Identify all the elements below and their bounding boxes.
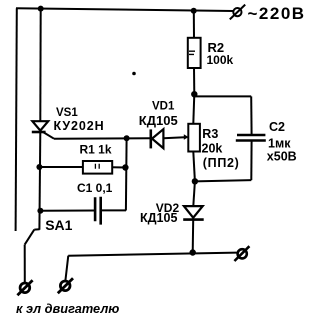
wire C2 bottom horizontal [195,180,251,181]
wire C2 lower vertical [250,140,252,180]
junction top-left [38,6,44,12]
thyristor VS1 triangle [32,121,48,130]
capacitor C2 plates [236,135,266,141]
wire SA1 blade [25,230,35,245]
resistor R3 (potentiometer) [188,124,200,152]
wire bottom rail [68,253,236,256]
terminal right output [234,246,249,261]
svg-text:х50В: х50В [267,150,297,164]
resistor R2 [188,38,201,68]
wire R1C1 right vertical [125,138,128,210]
wire R3 top lead [193,94,194,124]
svg-text:R3: R3 [202,127,218,141]
wire VS1 cathode drop [38,133,41,230]
R3 wiper arrowhead [184,134,189,140]
wire top rail [16,8,233,11]
wire VS1 anode drop [39,9,41,122]
junction gate node [124,135,130,141]
svg-text:~220В: ~220В [248,4,306,23]
terminal ~220V [230,5,245,20]
wire R1 left lead [39,166,83,168]
resistor R1 inner mark [95,164,99,169]
thyristor VS1 cathode bar [32,131,46,134]
wire VD2 top lead [193,181,195,206]
svg-text:(ПП2): (ПП2) [203,156,240,170]
junction bottom rail node [190,249,196,255]
wire R3 bottom lead [193,151,195,181]
wire C1 left lead [41,210,95,212]
wire R2 bottom lead [193,68,195,94]
diode VD2 triangle [184,206,203,218]
svg-text:КД105: КД105 [139,113,178,128]
svg-text:C1 0,1: C1 0,1 [77,181,113,195]
ink speck [132,72,136,76]
wire motor terminal riser [65,256,68,281]
terminal motor left [17,280,32,295]
capacitor C1 plates [95,197,101,225]
wire R1 right lead [112,166,126,168]
junction R1 right node [122,164,128,170]
wire gate to VD1 [54,137,150,139]
wire VS1 gate diagonal [44,132,54,138]
svg-text:VD1: VD1 [152,101,175,113]
wire SA1 pivot jog [34,228,39,230]
svg-text:100k: 100k [207,53,234,67]
terminal motor right [58,278,73,293]
wire SA1 lower lead [24,245,26,283]
resistor R1 [83,161,112,174]
resistor R2 inner mark [189,51,195,54]
svg-text:КУ202Н: КУ202Н [54,119,105,133]
junction R1 left node [36,164,42,170]
junction SA1 node [37,208,43,214]
diode VD2 cathode bar [183,218,204,221]
junction top R2 [191,8,197,14]
svg-text:1мк: 1мк [268,137,291,151]
svg-text:SA1: SA1 [45,217,72,233]
svg-text:R1 1k: R1 1k [80,143,112,157]
svg-text:C2: C2 [269,120,285,134]
svg-text:VS1: VS1 [56,107,78,119]
wire C2 top horizontal [194,95,251,97]
diode VD1 cathode bar [150,129,153,148]
wire VD2 bottom lead [192,220,195,253]
wire VD1 to R3 wiper [163,136,184,139]
svg-text:20k: 20k [202,142,223,156]
wire C2 upper vertical [250,96,252,135]
diode VD1 triangle [152,129,163,148]
svg-text:к эл двигателю: к эл двигателю [16,301,119,316]
wire left rail [16,8,17,231]
wire C1 right horizontal [100,209,126,211]
junction R3 bottom node [192,178,198,184]
junction R2 bottom node [191,91,197,97]
wire R2 top lead [193,11,195,38]
svg-text:КД105: КД105 [140,211,177,225]
